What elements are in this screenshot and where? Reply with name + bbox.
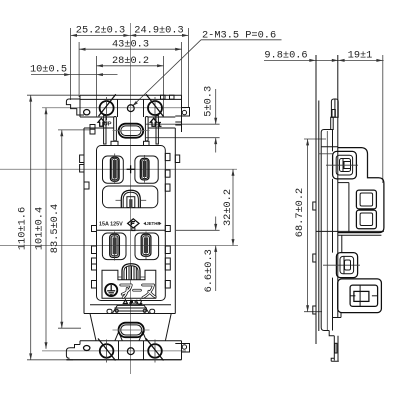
UP arrow left with text [98,118,112,127]
plate screw hole bottom (M3.5) [127,348,134,355]
center cross upper outlet [127,165,135,173]
svg-text:24.9±0.3: 24.9±0.3 [134,25,183,37]
lower body trapezoid [90,314,171,341]
plate screw hole top (M3.5) [127,105,134,112]
dimension 83.5±0.4 [49,130,90,328]
upper outlet chamber left [103,156,124,183]
face plate outline [97,146,166,301]
lower slot right [141,232,151,260]
svg-text:UP: UP [104,122,112,128]
JET mark [143,221,154,226]
svg-text:43±0.3: 43±0.3 [112,38,149,50]
screw hole top-right [146,94,163,120]
screw hole bottom-left [98,339,116,363]
svg-text:83.5±0.4: 83.5±0.4 [49,204,61,253]
side view lower outlet block [338,279,382,313]
upper outlet chamber right [135,156,158,183]
dimension 24.9±0.3 [130,25,189,108]
centerline top screws [42,107,186,109]
dimension 32±0.2 [222,169,235,245]
side view face plane line [337,55,339,318]
lower ground arch hatched [118,264,145,280]
dimension 110±1.6 [17,95,80,360]
centerline vertical (front view) [130,23,132,374]
side view body column [321,130,338,331]
PSE diamond mark [128,219,139,231]
screw slot strip right [156,116,158,145]
svg-text:9.8±0.6: 9.8±0.6 [264,50,307,62]
earth symbol circle [105,284,117,296]
akeru note (△あける) [123,300,142,304]
dimension 6.6±0.3 [176,217,220,293]
side view step under lower block [333,313,342,318]
lower outlet chamber right [135,233,159,260]
dimension 10±0.5 [30,64,118,76]
side view top tab [331,99,339,130]
svg-text:32±0.2: 32±0.2 [222,189,234,226]
top mounting strap [80,95,182,132]
top strap left ear [66,99,89,115]
svg-text:6.6±0.3: 6.6±0.3 [203,249,215,292]
svg-text:10±0.5: 10±0.5 [30,64,67,76]
side view upper outlet block [338,148,384,233]
strap slot strip left [114,117,117,142]
svg-text:15A 125V: 15A 125V [99,222,123,228]
centerline upper slots [0,168,237,170]
lower outlet chamber left [102,233,126,260]
screw hole bottom-right [146,339,164,363]
bottom mounting strap [66,341,181,360]
upper ground arch [116,190,147,207]
bottom strap left ear [66,345,90,359]
dimension 19±1 [338,50,383,184]
rating text 15A 125V [99,222,123,228]
box mounting oval bottom [113,323,150,338]
dimension 68.7±0.2 [294,139,326,312]
svg-text:101±0.4: 101±0.4 [34,207,46,250]
body side tabs left [80,155,97,288]
side view bottom tail [329,331,339,362]
HP mark [154,221,161,226]
svg-text:25.2±0.3: 25.2±0.3 [76,25,125,37]
svg-text:19±1: 19±1 [348,50,373,62]
upper ground chamber [103,186,158,208]
dimension 28±0.2 [97,55,164,117]
centerline lower slots [0,245,238,247]
screw slot strip left [104,116,106,145]
side view strap plane line [315,55,317,344]
svg-text:28±0.2: 28±0.2 [112,55,149,67]
top strap right ear [175,108,189,126]
strap slot strip right [145,117,148,142]
body outline [84,125,175,314]
body side tabs right [165,153,179,288]
UP arrow right with mark [150,118,161,126]
screw hole top-left [99,94,116,120]
dimension 5±0.3 [146,86,220,153]
side view middle wire clamp [323,253,360,278]
upper slot left [110,154,119,185]
dimension 25.2±0.3 [71,25,130,101]
dimension 101±0.4 [34,108,48,349]
side view strap inner line [318,101,320,332]
upper slot right [140,155,149,183]
strut left [115,332,122,341]
box mounting oval top [113,124,150,138]
earth label box [102,270,156,298]
centerline bottom screws [42,350,186,352]
side view upper wire clamp [319,151,358,179]
strut right [139,332,146,341]
lower slot left [110,232,120,261]
dimension 43±0.3 [79,38,182,97]
svg-text:2-M3.5 P=0.6: 2-M3.5 P=0.6 [202,30,276,42]
bottom strap right ear [175,344,189,353]
dimension 9.8±0.6 [264,50,384,62]
side view strap small tabs [313,202,316,314]
svg-text:5±0.3: 5±0.3 [203,86,215,117]
release band bottom [90,305,171,314]
svg-text:68.7±0.2: 68.7±0.2 [294,188,306,237]
side view ledge lines [316,231,384,252]
svg-text:110±1.6: 110±1.6 [17,207,29,250]
leader 2-M3.5 P=0.6 [132,30,282,107]
katakana A-SU (アース) [121,285,155,298]
